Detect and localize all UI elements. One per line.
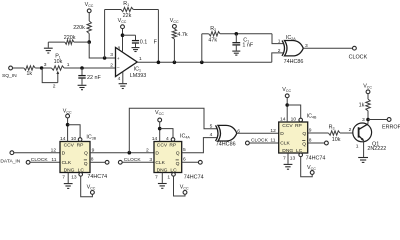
potentiometer P1 10k: [52, 54, 65, 83]
wire ff1 Q to ff2 D: [90, 152, 154, 154]
svg-text:CLK: CLK: [155, 160, 165, 166]
svg-text:VCC: VCC: [170, 18, 179, 24]
terminal ERROR: [382, 118, 400, 131]
ground: [64, 184, 73, 189]
ground: [232, 51, 240, 55]
ground: [78, 85, 87, 89]
svg-text:4: 4: [210, 132, 213, 138]
resistor R3 10k: [328, 125, 340, 144]
pin labels IC4A bottom: [155, 174, 170, 180]
svg-text:CCV: CCV: [157, 143, 168, 149]
svg-text:1: 1: [167, 174, 170, 180]
ground: [158, 184, 167, 189]
transistor Q1 2N2222: [353, 123, 386, 152]
svg-text:3: 3: [149, 157, 152, 163]
svg-text:SQ_IN: SQ_IN: [2, 73, 17, 79]
node feedback junction: [103, 56, 107, 60]
pin labels Q1: [349, 117, 365, 150]
Vcc supply ff1: [63, 109, 72, 118]
svg-text:4: 4: [118, 76, 121, 82]
terminal ff2 Qbar: [198, 160, 202, 164]
svg-text:CCV: CCV: [282, 123, 293, 129]
svg-text:11: 11: [270, 138, 275, 144]
svg-text:10: 10: [71, 136, 77, 142]
svg-text:3: 3: [362, 117, 365, 123]
wire clock out: [303, 47, 352, 49]
wire feedback top: [105, 9, 121, 11]
terminal CLOCK ff1: [26, 157, 48, 164]
svg-text:IC1: IC1: [134, 67, 141, 73]
pin 13 bubble: [79, 173, 83, 177]
wire xor to ff3 D: [237, 132, 279, 134]
svg-text:74HC86: 74HC86: [284, 59, 304, 65]
svg-text:12: 12: [51, 147, 57, 153]
svg-text:2: 2: [349, 127, 352, 133]
wire: [64, 67, 115, 69]
svg-text:6: 6: [183, 157, 186, 163]
wire pin 7: [161, 173, 163, 183]
pin labels P1: [44, 62, 70, 89]
svg-text:R2: R2: [210, 26, 216, 32]
svg-text:VCC: VCC: [118, 18, 127, 24]
resistor 220k upper: [73, 21, 91, 34]
svg-text:Q: Q: [84, 161, 88, 167]
wire: [48, 41, 65, 43]
terminal ff3 Qbar: [325, 141, 329, 145]
Vcc supply ff1 clear: [87, 185, 96, 195]
wire pin 14: [159, 122, 161, 142]
svg-text:2: 2: [146, 147, 149, 153]
terminal CLOCK out: [349, 46, 368, 60]
svg-text:10k: 10k: [54, 59, 63, 65]
ground: [132, 48, 140, 52]
node ff3 vcc junction: [285, 103, 289, 107]
svg-text:7: 7: [155, 174, 158, 180]
ground: [284, 164, 293, 169]
Vcc supply ff3: [282, 87, 291, 98]
svg-text:D: D: [280, 131, 284, 137]
wire feedback right leg: [157, 10, 159, 63]
pin labels IC3B top: [60, 136, 77, 142]
svg-text:2N2222: 2N2222: [367, 146, 386, 152]
svg-text:CLK: CLK: [62, 160, 72, 166]
xor gate IC2A 74HC86: [282, 35, 303, 65]
svg-text:1: 1: [278, 39, 281, 45]
wire: [35, 67, 51, 69]
wire: [14, 152, 60, 154]
svg-text:D: D: [62, 151, 66, 157]
Vcc supply collector: [363, 83, 372, 93]
capacitor 0.1 uF: [132, 35, 158, 47]
svg-text:RP: RP: [295, 123, 302, 129]
pin labels IC2A inputs: [278, 39, 281, 54]
svg-text:2: 2: [110, 62, 113, 68]
flip-flop IC4B 74HC74: [279, 122, 308, 154]
svg-text:CLOCK: CLOCK: [349, 54, 368, 60]
svg-text:CLK: CLK: [280, 141, 290, 147]
wire: [202, 33, 209, 35]
svg-text:74HC74: 74HC74: [306, 155, 326, 161]
svg-text:Q: Q: [84, 151, 88, 157]
svg-text:CCV: CCV: [64, 143, 75, 149]
wire pin 4: [122, 72, 124, 84]
Vcc supply divider: [85, 2, 94, 13]
wire: [220, 33, 272, 35]
svg-text:1k: 1k: [359, 102, 365, 108]
wire clear to Vcc: [81, 176, 93, 197]
svg-text:3: 3: [44, 62, 47, 68]
wire feedback left leg: [104, 10, 106, 59]
wire feedback top right: [133, 9, 158, 11]
svg-text:1k: 1k: [26, 71, 32, 77]
wire delay branch up: [201, 34, 203, 63]
svg-text:13: 13: [71, 174, 77, 180]
node C1 junction: [235, 32, 239, 36]
svg-text:14: 14: [280, 116, 286, 122]
pin labels IC4B top: [280, 116, 296, 122]
node decoupling junction: [121, 33, 125, 37]
wire ff3 Qbar stub: [308, 142, 325, 144]
svg-text:7: 7: [62, 174, 65, 180]
Vcc supply comparator: [118, 18, 127, 28]
wire clear to Vcc: [174, 176, 186, 196]
svg-text:R1: R1: [123, 1, 129, 7]
wire ff1 Q bus up: [129, 108, 216, 152]
xor gate IC2B 74HC86: [216, 125, 237, 147]
svg-text:0.1: 0.1: [140, 40, 148, 46]
svg-text:22 nF: 22 nF: [87, 75, 101, 81]
wire noninverting bias: [89, 42, 115, 58]
pin labels IC4A left: [146, 147, 152, 163]
svg-text:74HC74: 74HC74: [87, 174, 107, 180]
svg-text:D: D: [155, 151, 159, 157]
svg-text:IC4B: IC4B: [307, 113, 317, 119]
Vcc supply ff2: [155, 110, 164, 122]
pin 4 bubble: [171, 138, 175, 142]
node collector junction: [366, 118, 370, 122]
svg-text:–: –: [117, 66, 120, 71]
wire XOR input 1 feed: [272, 34, 284, 44]
node output junctions: [157, 61, 204, 65]
svg-text:RP: RP: [77, 143, 84, 149]
ground: [119, 84, 127, 89]
svg-text:IC4A: IC4A: [180, 134, 190, 140]
terminal SQ_IN: [2, 66, 17, 79]
wire emitter: [363, 141, 365, 157]
svg-text:1: 1: [356, 143, 359, 149]
wire R3 to base: [340, 132, 358, 134]
svg-text:ERROR: ERROR: [382, 125, 400, 131]
svg-text:VCC: VCC: [282, 87, 291, 93]
svg-text:LM393: LM393: [130, 73, 146, 79]
svg-text:VCC: VCC: [87, 185, 96, 191]
svg-text:Q: Q: [176, 161, 180, 167]
op-amp IC1 LM393: [116, 48, 147, 79]
wire: [173, 39, 175, 62]
svg-text:7: 7: [283, 155, 286, 161]
pin labels IC1: [110, 45, 142, 82]
wire preset feed: [160, 129, 173, 138]
wire: [367, 94, 369, 99]
svg-text:IC3B: IC3B: [86, 135, 96, 141]
flip-flop IC3B 74HC74: [60, 142, 90, 174]
pin labels IC4A top: [152, 136, 169, 142]
wire: [249, 142, 278, 144]
svg-text:VCC: VCC: [85, 2, 94, 8]
wire pin 7: [287, 153, 289, 164]
svg-text:IC2A: IC2A: [286, 35, 296, 41]
wire comparator output: [137, 61, 272, 63]
svg-text:R3: R3: [329, 125, 335, 131]
resistor 1k: [24, 66, 35, 77]
svg-text:RP: RP: [169, 143, 176, 149]
capacitor C1 1 nF: [232, 34, 253, 51]
node divider junction: [87, 40, 91, 44]
svg-text:F: F: [154, 40, 158, 46]
resistor R2 47k: [208, 26, 220, 43]
wire: [13, 67, 24, 69]
wire ff1 Qbar stub: [90, 161, 105, 163]
wire: [88, 13, 90, 21]
wire pin 14: [286, 98, 288, 122]
svg-text:VCC: VCC: [180, 185, 189, 191]
wire ff2 Qbar stub: [182, 161, 199, 163]
wire XOR input 2 feed: [272, 53, 284, 62]
resistor 220k lower: [64, 35, 76, 45]
node pot junction: [40, 66, 43, 69]
wire ff2 Q to xor: [182, 138, 217, 153]
terminal DATA_IN: [0, 151, 20, 165]
svg-text:VCC: VCC: [155, 110, 164, 116]
wire ff3 Q: [308, 132, 329, 134]
Vcc supply ff3 clear: [307, 165, 316, 174]
pin 10 bubble: [299, 118, 303, 122]
pin labels IC4B bottom: [283, 155, 296, 161]
svg-text:Q: Q: [302, 131, 306, 137]
wire pin 14: [67, 118, 69, 142]
wire wiper return: [42, 68, 58, 83]
svg-text:1: 1: [67, 62, 70, 68]
wire: [123, 34, 136, 36]
capacitor 22 nF: [78, 68, 101, 85]
svg-text:DATA_IN: DATA_IN: [0, 159, 20, 165]
svg-text:10: 10: [291, 116, 297, 122]
svg-text:220k: 220k: [73, 25, 85, 31]
svg-text:2: 2: [53, 84, 56, 90]
wire: [30, 161, 60, 163]
wire pin 7: [67, 173, 69, 184]
svg-text:5: 5: [183, 147, 186, 153]
wire: [122, 161, 154, 163]
pin 1 bubble: [172, 173, 176, 177]
pin 10 bubble: [78, 138, 82, 142]
resistor R1 22k: [121, 1, 133, 19]
ground: [358, 158, 368, 163]
Vcc supply ff2 clear: [180, 185, 189, 195]
svg-text:1: 1: [139, 56, 142, 62]
svg-text:8: 8: [118, 45, 121, 51]
svg-text:Q: Q: [176, 151, 180, 157]
svg-text:74HC74: 74HC74: [184, 175, 204, 181]
terminal CLOCK ff2: [118, 157, 141, 164]
node cap junction: [80, 66, 84, 70]
svg-text:47k: 47k: [208, 37, 217, 43]
resistor 1k collector: [359, 99, 371, 111]
terminal CLOCK ff3: [246, 138, 269, 145]
svg-text:VCC: VCC: [363, 83, 372, 89]
svg-text:12: 12: [270, 128, 276, 134]
Vcc supply pullup: [170, 18, 179, 29]
svg-text:10k: 10k: [332, 137, 341, 143]
wire error out: [368, 119, 387, 121]
svg-text:74HC86: 74HC86: [216, 142, 236, 148]
svg-text:14: 14: [60, 136, 66, 142]
svg-text:4: 4: [166, 136, 169, 142]
svg-text:2: 2: [278, 48, 281, 54]
node ff1 vcc junction: [66, 123, 70, 127]
svg-text:+: +: [117, 57, 120, 62]
svg-text:5: 5: [210, 123, 213, 129]
wire: [74, 41, 89, 43]
wire pin 8: [122, 29, 124, 52]
wire preset feed: [68, 125, 81, 138]
wire preset feed: [287, 105, 301, 118]
pin 13 bubble: [299, 153, 303, 157]
svg-text:220k: 220k: [64, 35, 76, 41]
resistor 4.7k: [172, 28, 188, 39]
wire: [367, 111, 369, 124]
ground: [44, 42, 53, 53]
svg-text:13: 13: [290, 155, 296, 161]
svg-text:3: 3: [110, 52, 113, 58]
svg-text:1 nF: 1 nF: [242, 42, 253, 48]
svg-text:11: 11: [51, 157, 56, 163]
svg-text:8: 8: [91, 156, 94, 162]
svg-text:22k: 22k: [123, 13, 132, 19]
svg-text:DNG: DNG: [64, 167, 75, 173]
svg-text:14: 14: [152, 136, 158, 142]
svg-text:4.7k: 4.7k: [177, 32, 187, 38]
wire clear to Vcc: [301, 157, 313, 177]
terminal ff1 Qbar: [105, 160, 109, 164]
svg-text:Q: Q: [302, 141, 306, 147]
wire: [88, 34, 90, 43]
node ff2 vcc junction: [158, 127, 162, 131]
node ff1 Q junction: [128, 151, 132, 155]
pin labels IC3B bottom: [62, 174, 77, 180]
flip-flop IC4A 74HC74: [154, 142, 182, 174]
